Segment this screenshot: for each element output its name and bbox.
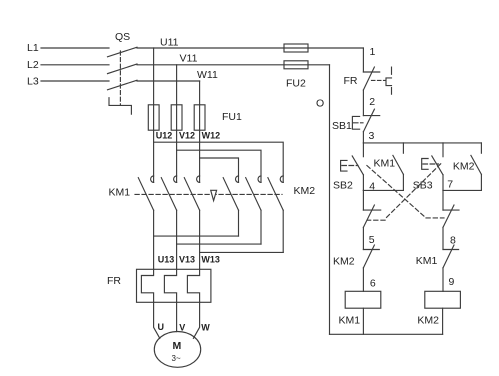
svg-text:V13: V13 <box>179 255 195 265</box>
pushbutton SB1 <box>332 109 380 132</box>
contactor KM2 main contacts <box>223 176 315 210</box>
svg-text:U13: U13 <box>158 255 175 265</box>
svg-text:U11: U11 <box>160 37 179 49</box>
wire 6 <box>362 268 364 292</box>
motor M <box>154 332 200 368</box>
svg-text:QS: QS <box>115 31 130 43</box>
contactor KM1 main contacts <box>109 176 200 210</box>
node 3 <box>369 130 375 142</box>
wire KM1 pole2 down <box>176 210 178 269</box>
thermal relay FR contact <box>344 67 392 94</box>
wire U12 column <box>153 48 155 182</box>
svg-text:U12: U12 <box>156 130 173 140</box>
wire KM1 pole1 down <box>153 210 155 269</box>
contact KM1 aux NO <box>374 143 404 191</box>
node O <box>316 98 324 110</box>
wire 3 <box>362 132 364 143</box>
node V13 <box>179 255 195 265</box>
wire KM2 coil to rail <box>442 308 444 334</box>
wire L1 <box>41 47 109 49</box>
node U <box>158 322 165 332</box>
pushbutton SB2 <box>333 143 363 192</box>
wire merge V13 <box>177 243 261 245</box>
svg-text:KM1: KM1 <box>109 187 131 199</box>
wire KM2 pole2 down <box>260 210 262 244</box>
svg-text:L1: L1 <box>27 42 39 54</box>
node 4 <box>369 181 375 193</box>
node 1 <box>370 46 376 58</box>
svg-text:KM2: KM2 <box>417 315 439 327</box>
svg-text:KM2: KM2 <box>333 256 355 268</box>
wire rail node3 <box>363 142 481 144</box>
wire KM2 pole3 down <box>282 210 284 252</box>
svg-text:KM1: KM1 <box>374 158 396 170</box>
wire U12 to KM2 pole3 <box>154 142 284 182</box>
svg-text:O: O <box>316 98 324 110</box>
svg-text:3~: 3~ <box>172 354 181 363</box>
wire merge U13 <box>154 235 239 237</box>
wire U to motor <box>154 302 160 338</box>
thermal overload FR heaters <box>107 269 211 302</box>
wire node7 <box>443 189 481 191</box>
svg-text:FR: FR <box>107 275 121 287</box>
wire node1 drop <box>362 48 364 72</box>
node 8 <box>450 235 456 247</box>
coil KM2 <box>417 291 460 326</box>
node 5 <box>369 234 375 246</box>
wire U11 <box>137 37 363 49</box>
node 2 <box>369 96 375 108</box>
wire 8 <box>442 227 444 249</box>
contact KM2 aux NO <box>453 143 482 191</box>
svg-text:V: V <box>179 323 185 333</box>
wire W to motor <box>193 302 199 338</box>
wire V11 <box>137 53 330 65</box>
wire V to motor <box>176 302 178 331</box>
wire merge W13 <box>200 251 284 253</box>
wire V12 column <box>176 65 178 183</box>
wire 9 <box>442 268 444 292</box>
node W13 <box>201 255 220 265</box>
mechanical link SB3 to contact 5 <box>368 164 441 220</box>
wire node4 <box>363 189 403 191</box>
svg-text:FR: FR <box>344 75 358 87</box>
node V <box>179 323 185 333</box>
fuse FU1 <box>148 105 242 130</box>
svg-text:1: 1 <box>370 46 376 58</box>
wire 5 <box>362 227 364 249</box>
node L3 <box>27 76 39 88</box>
svg-text:L3: L3 <box>27 76 39 88</box>
node W12 <box>202 130 221 140</box>
svg-text:W11: W11 <box>197 69 218 81</box>
wire bottom rail <box>330 333 443 335</box>
svg-text:SB1: SB1 <box>332 120 352 132</box>
svg-text:V12: V12 <box>179 130 195 140</box>
node L1 <box>27 42 39 54</box>
svg-text:FU1: FU1 <box>222 111 242 123</box>
contact KM2 NC interlock <box>333 245 379 268</box>
wire W11 <box>137 69 218 81</box>
contact KM1 NC interlock <box>416 245 459 268</box>
mechanical link SB2 to contact 8 <box>367 166 444 218</box>
wire L2 <box>41 64 109 66</box>
svg-text:SB2: SB2 <box>333 180 353 192</box>
node U13 <box>158 255 175 265</box>
svg-text:W12: W12 <box>202 130 221 140</box>
node U12 <box>156 130 173 140</box>
wire L3 <box>41 80 109 82</box>
wire W12 to KM2 pole1 <box>200 158 239 182</box>
svg-text:KM1: KM1 <box>339 315 361 327</box>
svg-text:L2: L2 <box>27 59 39 71</box>
node 7 <box>447 179 453 191</box>
svg-text:M: M <box>173 340 182 352</box>
wire V12 to KM2 pole2 <box>177 150 261 182</box>
svg-text:W: W <box>201 323 210 333</box>
svg-text:FU2: FU2 <box>286 78 306 90</box>
contact SB3 NC linked (4-5) <box>363 190 380 227</box>
wire KM1 coil to rail <box>362 308 364 334</box>
svg-text:6: 6 <box>370 278 376 290</box>
svg-text:V11: V11 <box>180 53 198 65</box>
svg-text:7: 7 <box>447 179 453 191</box>
fuse FU2 <box>284 44 308 90</box>
svg-text:5: 5 <box>369 234 375 246</box>
svg-text:KM2: KM2 <box>453 161 475 173</box>
node 9 <box>449 276 455 288</box>
node V12 <box>179 130 195 140</box>
wire O rail <box>329 65 331 335</box>
svg-text:2: 2 <box>369 96 375 108</box>
svg-text:KM1: KM1 <box>416 255 438 267</box>
svg-text:3: 3 <box>369 130 375 142</box>
node W <box>201 323 210 333</box>
wire KM2 pole1 down <box>238 210 240 236</box>
coil KM1 <box>339 291 381 326</box>
mechanical link KM1-KM2 <box>135 190 282 200</box>
switch QS <box>108 31 138 114</box>
wire W12 column <box>199 81 201 182</box>
node 6 <box>370 278 376 290</box>
svg-text:W13: W13 <box>201 255 220 265</box>
wire 2 <box>362 90 364 116</box>
pushbutton SB3 <box>413 143 443 192</box>
node L2 <box>27 59 39 71</box>
wire KM1 pole3 down <box>199 210 201 269</box>
svg-text:9: 9 <box>449 276 455 288</box>
contact SB2 NC linked (7-8) <box>443 190 459 227</box>
svg-text:8: 8 <box>450 235 456 247</box>
svg-text:KM2: KM2 <box>294 185 316 197</box>
svg-text:U: U <box>158 322 165 332</box>
